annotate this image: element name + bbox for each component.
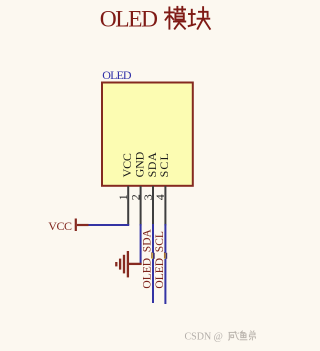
- svg-text:OLED: OLED: [100, 7, 158, 33]
- svg-text:CSDN @: CSDN @: [185, 331, 223, 342]
- svg-text:OLED_SDA: OLED_SDA: [141, 228, 153, 288]
- svg-text:VCC: VCC: [48, 219, 72, 233]
- svg-text:SCL: SCL: [157, 152, 171, 177]
- svg-text:OLED_SCL: OLED_SCL: [154, 231, 166, 289]
- svg-text:OLED: OLED: [102, 68, 132, 82]
- svg-text:4: 4: [153, 194, 167, 200]
